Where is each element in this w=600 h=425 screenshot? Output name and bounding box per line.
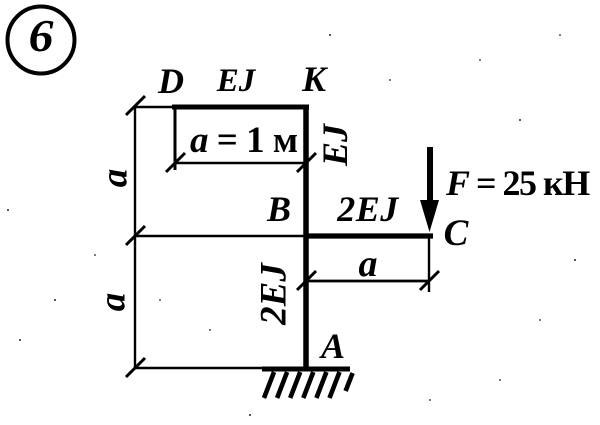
svg-text:A: A (319, 326, 345, 366)
ground hatching (264, 372, 353, 398)
member K-A vertical (303, 105, 309, 369)
ground support line (262, 367, 350, 372)
tick a left (297, 271, 316, 290)
svg-text:a: a (95, 169, 136, 188)
tick middle-left (126, 226, 145, 245)
problem number circle 6 (8, 7, 75, 74)
wire bottom thin line (135, 367, 270, 369)
svg-text:EJ: EJ (315, 123, 355, 167)
svg-text:2EJ: 2EJ (254, 262, 295, 326)
tick a=1m right (297, 153, 316, 172)
tick a=1m left (166, 153, 185, 172)
left dimension line (134, 105, 136, 368)
tick bottom-left (126, 358, 145, 377)
svg-text:2EJ: 2EJ (336, 189, 399, 229)
dimension line a=1m (175, 162, 306, 165)
svg-text:D: D (157, 61, 184, 101)
svg-text:EJ: EJ (216, 63, 257, 99)
svg-text:C: C (444, 213, 470, 254)
dimension line a (B-C) (306, 280, 429, 283)
member B-C (304, 233, 433, 238)
wire top thin extension (135, 106, 175, 108)
extension line below C (428, 238, 430, 292)
tick a right (420, 271, 439, 290)
svg-text:K: K (301, 59, 329, 99)
wire thin line left of B (135, 235, 306, 237)
dimension a=1m extension line (174, 109, 177, 170)
force F arrow (420, 147, 439, 232)
tick top-left (126, 96, 145, 115)
svg-text:B: B (266, 189, 291, 229)
svg-text:a: a (93, 293, 134, 312)
svg-text:6: 6 (29, 11, 54, 62)
svg-text:a = 1 м: a = 1 м (190, 120, 298, 161)
svg-text:F = 25 кН: F = 25 кН (445, 163, 590, 203)
member D-K (172, 105, 309, 110)
svg-text:a: a (359, 243, 378, 285)
